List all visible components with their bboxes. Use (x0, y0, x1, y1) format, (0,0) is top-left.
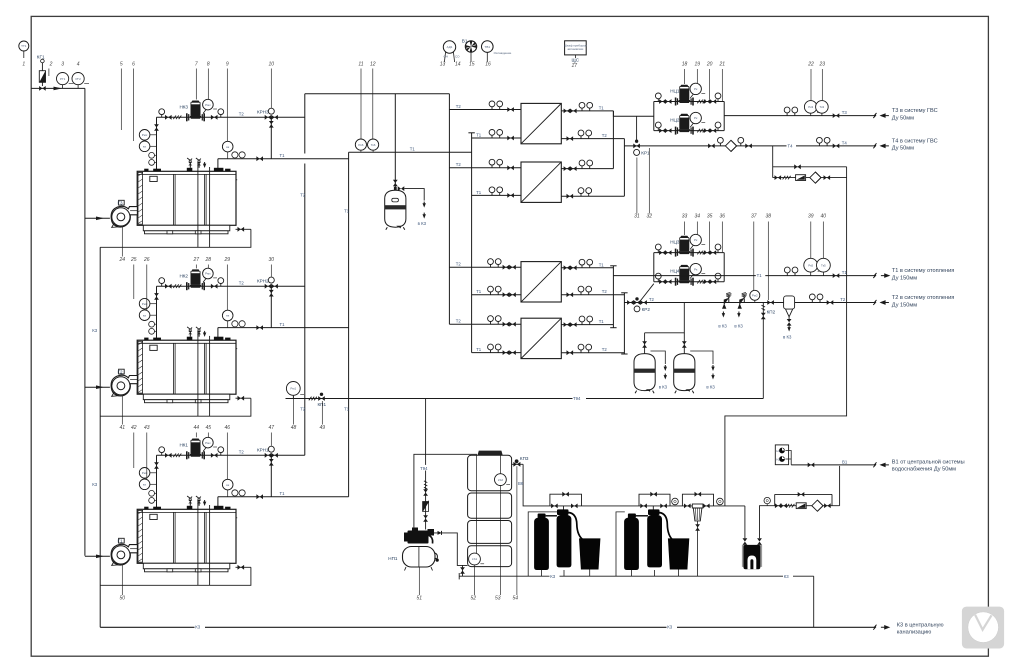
boiler circuit 1 (100, 99, 348, 247)
V6 softened water riser (523, 464, 550, 506)
treatment drain collector (459, 573, 814, 579)
svg-text:22: 22 (807, 62, 814, 68)
thermostat TB1 (482, 41, 512, 62)
svg-text:4: 4 (77, 62, 80, 68)
safety valve 1 drain arrow (722, 312, 725, 318)
svg-text:Т2: Т2 (602, 347, 608, 352)
expansion tank MB (385, 190, 406, 230)
svg-text:2: 2 (49, 62, 53, 68)
svg-text:Н2: Н2 (776, 457, 780, 461)
svg-text:Т1: Т1 (410, 147, 416, 152)
heating expansion riser (645, 303, 685, 333)
exhaust fan (462, 39, 477, 62)
T94 label (573, 395, 587, 401)
accumulator tank (403, 547, 436, 568)
svg-text:28: 28 (205, 257, 212, 263)
tank segment 3 (468, 521, 512, 544)
svg-text:37: 37 (751, 214, 757, 220)
svg-text:Т2: Т2 (649, 297, 655, 302)
T4 break mark (873, 143, 876, 148)
softener 2 tank A (624, 517, 639, 570)
TO3 right T2 branch (561, 286, 624, 297)
T3 sensor circle Tk3 (816, 101, 829, 116)
dosing right valve (757, 538, 762, 545)
heat exchanger TO3 (521, 262, 561, 302)
svg-text:КРН2: КРН2 (257, 278, 269, 283)
svg-text:канализацию: канализацию (897, 630, 931, 636)
booster pump box (775, 445, 791, 465)
svg-text:18: 18 (682, 62, 688, 68)
svg-text:Н1: Н1 (776, 449, 780, 453)
svg-text:РГ2: РГ2 (75, 77, 81, 81)
numbers row 2 (634, 214, 826, 220)
KR2 regulator cluster (627, 297, 650, 312)
upper T1 collector (612, 111, 614, 169)
svg-text:39: 39 (808, 214, 814, 220)
softener 1 brine tank (579, 538, 600, 569)
svg-text:Т3 в систему ГВС: Т3 в систему ГВС (892, 108, 938, 114)
drain collector label 2 (783, 573, 793, 579)
loop bypass valve (794, 164, 801, 169)
expansion drain to K3 (404, 189, 424, 201)
T1 valve (833, 273, 840, 278)
svg-text:41: 41 (120, 425, 126, 431)
TO3 left T2 branch (449, 259, 521, 270)
drain arrow 2 (423, 213, 426, 219)
T4 valve 2 (745, 144, 752, 149)
svg-text:автоматики: автоматики (567, 47, 583, 51)
gas riser down (84, 88, 86, 555)
heat exchanger TO1 (521, 103, 561, 143)
softener 2 tank A cap (628, 514, 636, 519)
svg-text:51: 51 (417, 596, 423, 602)
NP1 suction from tank (434, 533, 468, 566)
T2 arrow in (881, 301, 889, 304)
loop diamond filter (810, 172, 821, 183)
svg-text:Г2: Г2 (118, 369, 123, 374)
T4 gauges right (817, 137, 831, 146)
svg-text:НП1: НП1 (388, 556, 398, 561)
svg-text:в К3: в К3 (418, 221, 427, 226)
TO1 left T2 branch (449, 101, 521, 112)
softener 1 outlet valve (571, 504, 578, 509)
gas stub burner 2 (85, 385, 110, 389)
svg-text:35: 35 (707, 214, 713, 220)
drop filter (423, 502, 429, 512)
softener 1 tank A (534, 517, 549, 570)
svg-text:НЦ4: НЦ4 (670, 269, 680, 274)
TO4 right T1 branch (561, 316, 613, 327)
meter loop left riser (774, 494, 776, 505)
softener 1 inlet valve (551, 504, 558, 509)
TO2 left T1 branch (472, 187, 521, 198)
svg-text:в К3: в К3 (706, 385, 715, 390)
T1 gauges (784, 267, 798, 276)
B1 arrow (881, 463, 889, 466)
dosing unit (742, 545, 762, 569)
svg-text:К3 в центральную: К3 в центральную (897, 622, 944, 628)
safety valve 2 drain arrow (737, 312, 740, 318)
leader lines row 5 (122, 466, 517, 595)
svg-text:Т4: Т4 (788, 143, 794, 148)
svg-text:54: 54 (513, 596, 519, 602)
svg-text:7: 7 (195, 62, 198, 68)
TO2 left T2 branch (449, 159, 521, 170)
T2 supply riser (448, 94, 450, 324)
svg-text:Т3: Т3 (842, 110, 848, 115)
svg-text:19: 19 (695, 62, 701, 68)
T4 label mid (787, 142, 797, 149)
svg-text:Т2: Т2 (840, 297, 846, 302)
expansion tank 1 stand pipe (644, 333, 646, 355)
expansion tank 1 (634, 354, 655, 394)
svg-text:Ду 50мм: Ду 50мм (892, 115, 914, 121)
svg-text:33: 33 (682, 214, 688, 220)
svg-text:НЦ3: НЦ3 (670, 240, 680, 245)
softener 2 drops to drain (632, 570, 679, 577)
softener 2 head drop (652, 506, 654, 510)
svg-text:44: 44 (194, 425, 200, 431)
dosing gauge (764, 497, 770, 505)
svg-text:К3: К3 (92, 482, 98, 487)
gas stub burner 3 (85, 555, 110, 559)
svg-text:Ду 150мм: Ду 150мм (892, 275, 917, 281)
KP2 makeup connection (761, 303, 776, 399)
drain collector label 1 (550, 573, 560, 579)
T3 valve (833, 113, 840, 118)
svg-text:КП2: КП2 (767, 310, 776, 315)
svg-text:Т94: Т94 (573, 396, 581, 401)
svg-text:46: 46 (225, 425, 231, 431)
heating pump group NC3/NC4 (654, 234, 724, 285)
TO2 right T2 branch (561, 188, 624, 199)
svg-text:Ду 150мм: Ду 150мм (892, 302, 917, 308)
softener 1 tank A cap (538, 514, 546, 519)
B1 break mark (873, 462, 876, 467)
filter outlet valve (703, 504, 710, 509)
expansion tank 2 (674, 354, 695, 394)
T4 valve right (833, 144, 840, 149)
expansion line from manifold (394, 94, 396, 192)
svg-text:Тк5: Тк5 (821, 263, 826, 267)
svg-text:СО: СО (455, 55, 460, 59)
T4 valve 1 (708, 144, 715, 149)
svg-text:В1: В1 (842, 459, 848, 464)
K3 main sewer line (100, 626, 875, 628)
svg-text:43: 43 (144, 425, 150, 431)
loop water meter (796, 175, 806, 181)
tank segment 4 (468, 546, 512, 567)
svg-text:1: 1 (22, 62, 25, 68)
softener 2 tank link (636, 515, 648, 517)
expansion tank 1 drain (651, 351, 668, 390)
B1 line (791, 464, 875, 466)
suction check valve (438, 531, 442, 535)
svg-text:11: 11 (358, 62, 363, 68)
suction diagonal to pump group (640, 284, 654, 301)
svg-text:Рм2: Рм2 (752, 294, 758, 298)
T1 sensor circle Tk5 (817, 258, 831, 275)
svg-text:Т2: Т2 (300, 193, 306, 198)
expansion safety valve (393, 180, 398, 187)
labels circuit2 (118, 274, 270, 375)
level sensor LS2 (495, 474, 511, 486)
drop valve 1 (423, 489, 428, 496)
svg-text:Т1: Т1 (599, 262, 605, 267)
svg-text:13: 13 (440, 62, 446, 68)
loop left riser (772, 146, 774, 178)
expansion tank 1 valve (642, 341, 647, 348)
softener 2 tank B (647, 515, 662, 568)
svg-text:12: 12 (370, 62, 376, 68)
tank segment 1 (468, 455, 512, 490)
heat exchanger TO2 (521, 162, 561, 202)
T1 heating export line (613, 275, 875, 277)
gas stub burner 1 (85, 217, 110, 221)
loop valve left (775, 175, 782, 180)
svg-text:ЩС: ЩС (572, 57, 580, 62)
T2 gauges right (809, 294, 823, 303)
T2 valve mid (767, 300, 774, 305)
svg-text:Рк3: Рк3 (808, 105, 813, 109)
safety valve 2 on T2 (738, 293, 747, 309)
T3 sensor circle Pk3 (804, 101, 820, 116)
T4 line from T2 collector (624, 145, 875, 147)
svg-text:КРН1: КРН1 (257, 447, 269, 452)
svg-text:21: 21 (719, 62, 726, 68)
B1 valve (808, 463, 815, 468)
svg-text:КП3: КП3 (520, 456, 529, 461)
numbers row 1 (22, 62, 825, 70)
boiler circuit 3 (100, 437, 348, 585)
TO4 right T2 branch (561, 344, 624, 355)
svg-text:14: 14 (455, 62, 461, 68)
svg-text:8: 8 (207, 62, 210, 68)
svg-text:К3: К3 (92, 328, 98, 333)
svg-text:К3: К3 (195, 625, 201, 630)
svg-text:водоснабжения Ду 50мм: водоснабжения Ду 50мм (892, 467, 956, 473)
svg-text:в К3: в К3 (734, 323, 743, 328)
T1 riser (348, 152, 350, 497)
T94 drop label (420, 465, 432, 471)
meter diamond filter (812, 500, 823, 511)
makeup bypass loop to T4 (725, 146, 847, 506)
softener 2 bypass (639, 492, 670, 506)
TO3 left T1 branch (472, 286, 521, 297)
softener 2 brine hose (659, 513, 673, 541)
NP1 discharge riser to tank feed (414, 454, 477, 530)
TO3 right T1 branch (561, 259, 613, 270)
T2 riser to manifold (304, 94, 306, 456)
svg-text:АД1: АД1 (447, 45, 453, 49)
svg-text:Т2: Т2 (602, 133, 608, 138)
svg-text:Т2 в систему отопления: Т2 в систему отопления (892, 295, 954, 301)
T4 strainer gauges (718, 137, 744, 146)
T4 arrow (881, 144, 889, 147)
KP1 flex (309, 397, 317, 401)
svg-text:Т1 в систему отопления: Т1 в систему отопления (892, 268, 954, 274)
boiler circuit 2 (100, 268, 348, 416)
softener 1 control head (557, 509, 569, 515)
gas meter RG2 (72, 73, 89, 89)
filter inlet valve (684, 504, 691, 509)
T1 break mark (873, 273, 876, 278)
svg-text:23: 23 (819, 62, 826, 68)
labels circuit3 (118, 443, 270, 544)
svg-text:48: 48 (291, 425, 297, 431)
B1 drop from city line (839, 466, 841, 506)
svg-text:20: 20 (706, 62, 713, 68)
svg-text:Г3: Г3 (118, 200, 123, 205)
svg-text:3: 3 (61, 62, 64, 68)
treatment main line (550, 505, 745, 507)
K3 arrow out (881, 626, 889, 629)
svg-text:Рк6: Рк6 (358, 143, 363, 147)
thermometer TT1 (19, 41, 29, 58)
numbers row 4 (120, 425, 326, 431)
level sensor LS1 (469, 553, 485, 565)
TO1 right T2 branch (561, 130, 624, 141)
safety valve 1 on T2 (723, 293, 732, 309)
T1 sensor circle Pk5 (804, 258, 822, 275)
makeup riser down (725, 167, 847, 506)
boiler T1 sensor circle Tk6 (368, 139, 379, 152)
fine filter (692, 504, 703, 576)
treatment gauge 2 (717, 498, 724, 505)
dosing left riser (744, 506, 746, 538)
softener 2 control head (648, 509, 660, 515)
KR1 regulator valve (633, 140, 650, 156)
T3 arrow (881, 114, 889, 117)
svg-text:40: 40 (821, 214, 827, 220)
meter valve right (824, 503, 831, 508)
svg-text:НЦ2: НЦ2 (670, 118, 680, 123)
svg-text:Т2: Т2 (602, 289, 608, 294)
svg-text:К3: К3 (667, 625, 673, 630)
softener 1 tank link (546, 515, 557, 517)
T1 arrow out (881, 274, 889, 277)
svg-text:В1: В1 (462, 39, 468, 44)
meter line valve 1 (775, 503, 782, 508)
svg-text:Охлаждение: Охлаждение (494, 51, 512, 55)
svg-text:Рк5: Рк5 (808, 263, 813, 267)
svg-text:50: 50 (120, 596, 126, 602)
svg-text:53: 53 (495, 596, 501, 602)
KP1 solenoid valve (318, 393, 327, 408)
svg-text:ТВ1: ТВ1 (485, 45, 491, 49)
softener 2 inlet valve (640, 504, 647, 509)
svg-text:32: 32 (647, 214, 653, 220)
svg-text:НК1: НК1 (179, 443, 188, 448)
svg-text:Т1: Т1 (757, 273, 763, 278)
leader lines row 1 (121, 63, 822, 142)
svg-text:Т1: Т1 (344, 407, 350, 412)
gas valve (39, 86, 46, 91)
T3 gauges small (784, 107, 798, 116)
boiler T1 sensor circle Pk6 (355, 139, 366, 152)
drain drop to main (813, 576, 815, 627)
svg-text:К3: К3 (550, 574, 556, 579)
TO4 left T2 branch (449, 316, 521, 327)
drop valve 2 (423, 515, 428, 522)
svg-text:ТТ1: ТТ1 (21, 44, 27, 48)
svg-text:38: 38 (766, 214, 772, 220)
K3 label right (667, 623, 678, 629)
T1 label left (756, 272, 766, 278)
numbers row 3 (119, 257, 275, 263)
loop flex (783, 176, 791, 180)
svg-text:В1 от центральной системы: В1 от центральной системы (892, 458, 965, 465)
svg-text:26: 26 (143, 257, 150, 263)
svg-text:Т1: Т1 (842, 270, 848, 275)
svg-text:в К3: в К3 (783, 334, 792, 339)
T2 manifold top line (305, 93, 450, 95)
svg-text:9: 9 (226, 62, 229, 68)
svg-text:49: 49 (320, 425, 326, 431)
meter line valve 2 (780, 503, 787, 508)
dosing right riser (760, 506, 775, 539)
softener 2 brine tank (668, 538, 689, 569)
svg-text:45: 45 (206, 425, 212, 431)
loop top bypass (773, 166, 847, 168)
T2 valve right (827, 300, 834, 305)
svg-text:36: 36 (720, 214, 726, 220)
city water meter (796, 503, 806, 509)
svg-text:Т1: Т1 (344, 209, 350, 214)
loop meter line (773, 177, 847, 179)
DHW pump group NC1/NC2 (654, 83, 724, 134)
softener station 2 frame (616, 512, 625, 576)
expansion tank 2 drain (690, 351, 715, 390)
tank segment 2 (468, 493, 512, 518)
T1 return riser (468, 133, 474, 353)
drop zigzag hose (424, 481, 427, 489)
svg-text:Т4 в систему ГВС: Т4 в систему ГВС (892, 138, 938, 144)
lower T2 collector (621, 293, 627, 354)
numbers row 5 (120, 596, 519, 602)
svg-text:5: 5 (120, 62, 123, 68)
svg-text:КРН3: КРН3 (257, 109, 269, 114)
svg-text:30: 30 (269, 257, 275, 263)
svg-text:10: 10 (269, 62, 275, 68)
svg-text:Тк3: Тк3 (820, 105, 825, 109)
T4 diamond filter (725, 140, 736, 151)
svg-text:В6: В6 (518, 481, 524, 486)
T2 sensor circle Pm2 (750, 290, 760, 302)
svg-text:Т1: Т1 (599, 319, 605, 324)
tank cap (478, 451, 503, 456)
TO2 right T1 branch (561, 160, 613, 171)
svg-text:Т2: Т2 (300, 407, 306, 412)
upper T2 collector (623, 139, 625, 197)
svg-text:НК2: НК2 (179, 274, 188, 279)
svg-text:НЦ1: НЦ1 (670, 88, 680, 93)
svg-text:Тк6: Тк6 (371, 143, 376, 147)
treatment gauge 1 (672, 498, 679, 505)
feed pump station NP1 (388, 528, 439, 571)
svg-text:КР2: КР2 (642, 307, 651, 312)
expansion tee fitting (394, 186, 404, 191)
T94 drop to feed pump (425, 399, 427, 530)
softener 2 outlet valve (660, 504, 667, 509)
TO1 right T1 branch (561, 102, 613, 113)
svg-text:Г1: Г1 (118, 538, 123, 543)
expansion tank 2 stand pipe (683, 333, 685, 355)
svg-text:47: 47 (269, 425, 275, 431)
K3 label left (195, 623, 206, 629)
T1 jog to pump suction (613, 111, 653, 116)
svg-text:15: 15 (469, 62, 475, 68)
